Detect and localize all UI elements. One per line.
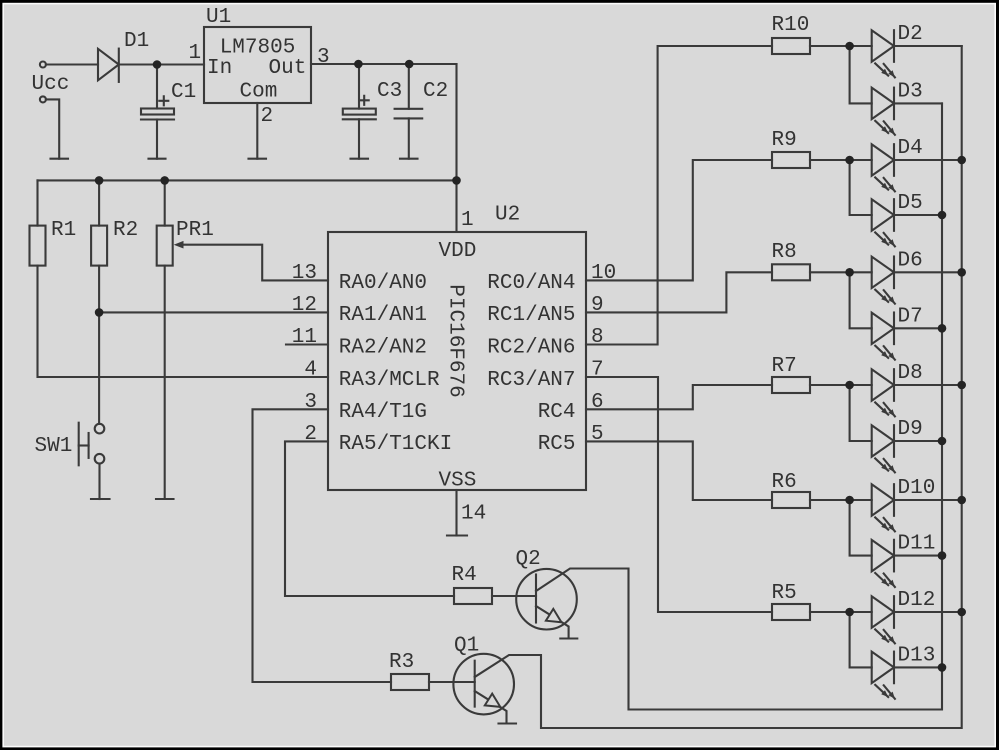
svg-text:Com: Com [240, 81, 278, 104]
svg-text:C2: C2 [423, 80, 448, 103]
svg-text:10: 10 [591, 262, 616, 285]
svg-text:R2: R2 [113, 219, 138, 242]
svg-text:C1: C1 [171, 81, 196, 104]
svg-text:R7: R7 [772, 355, 797, 378]
svg-text:RC0/AN4: RC0/AN4 [487, 272, 575, 295]
svg-text:RA4/T1G: RA4/T1G [339, 401, 427, 424]
svg-text:R8: R8 [772, 241, 797, 264]
svg-text:D4: D4 [898, 137, 923, 160]
svg-text:RC4: RC4 [538, 401, 576, 424]
svg-text:VSS: VSS [439, 470, 477, 493]
svg-text:D6: D6 [898, 249, 923, 272]
svg-text:RC3/AN7: RC3/AN7 [487, 369, 575, 392]
svg-text:14: 14 [461, 503, 486, 526]
svg-text:9: 9 [591, 294, 604, 317]
svg-text:RA1/AN1: RA1/AN1 [339, 304, 427, 327]
svg-text:11: 11 [292, 326, 317, 349]
svg-text:U1: U1 [206, 6, 231, 29]
svg-text:2: 2 [304, 423, 317, 446]
svg-text:VDD: VDD [439, 240, 477, 263]
svg-text:1: 1 [189, 42, 202, 65]
svg-text:8: 8 [591, 326, 604, 349]
svg-text:R3: R3 [389, 651, 414, 674]
svg-text:R9: R9 [772, 129, 797, 152]
svg-text:R4: R4 [452, 564, 477, 587]
svg-text:RC2/AN6: RC2/AN6 [487, 336, 575, 359]
svg-text:D8: D8 [898, 362, 923, 385]
svg-text:RA5/T1CKI: RA5/T1CKI [339, 433, 452, 456]
svg-text:1: 1 [461, 209, 474, 232]
svg-text:Out: Out [269, 57, 307, 80]
svg-text:4: 4 [304, 359, 317, 382]
svg-text:R1: R1 [51, 219, 76, 242]
svg-text:R5: R5 [772, 582, 797, 605]
svg-text:PR1: PR1 [176, 219, 214, 242]
svg-text:D11: D11 [898, 533, 936, 556]
svg-text:RA3/MCLR: RA3/MCLR [339, 369, 440, 392]
svg-text:In: In [207, 57, 232, 80]
svg-text:7: 7 [591, 359, 604, 382]
svg-text:D10: D10 [898, 477, 936, 500]
svg-text:RA0/AN0: RA0/AN0 [339, 272, 427, 295]
svg-text:5: 5 [591, 423, 604, 446]
svg-text:RC1/AN5: RC1/AN5 [487, 304, 575, 327]
svg-text:D3: D3 [898, 80, 923, 103]
svg-text:SW1: SW1 [35, 435, 73, 458]
svg-text:RA2/AN2: RA2/AN2 [339, 336, 427, 359]
svg-text:D9: D9 [898, 418, 923, 441]
svg-text:R10: R10 [772, 14, 810, 37]
svg-text:12: 12 [292, 294, 317, 317]
svg-text:PIC16F676: PIC16F676 [444, 284, 467, 397]
svg-text:C3: C3 [377, 80, 402, 103]
svg-text:13: 13 [292, 262, 317, 285]
svg-text:D7: D7 [898, 305, 923, 328]
svg-text:D2: D2 [898, 23, 923, 46]
svg-text:2: 2 [261, 105, 274, 128]
svg-text:RC5: RC5 [538, 433, 576, 456]
svg-text:Q2: Q2 [516, 548, 541, 571]
svg-text:6: 6 [591, 391, 604, 414]
svg-text:Ucc: Ucc [32, 73, 70, 96]
svg-text:R6: R6 [772, 471, 797, 494]
svg-text:Q1: Q1 [454, 635, 479, 658]
svg-text:3: 3 [317, 46, 330, 69]
svg-text:D5: D5 [898, 192, 923, 215]
svg-text:3: 3 [304, 391, 317, 414]
svg-text:D13: D13 [898, 644, 936, 667]
svg-text:D12: D12 [898, 589, 936, 612]
svg-text:D1: D1 [124, 30, 149, 53]
svg-text:U2: U2 [495, 204, 520, 227]
